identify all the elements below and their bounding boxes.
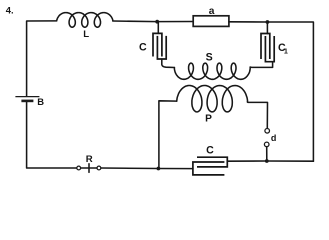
wire: L to node 1 (113, 20, 157, 23)
capacitor C (left, interleaved plates) top lead (157, 22, 159, 34)
wire: key R to bottom-left corner and up to battery (27, 102, 77, 168)
svg-text:1: 1 (284, 47, 288, 56)
inductor L (57, 13, 113, 28)
capacitor C (left) top plate (153, 33, 162, 56)
node: junction of bottom wire and coil P lead (157, 167, 161, 171)
spark gap lower terminal (264, 142, 269, 147)
wire: coil S right end to capacitor C1 bottom lead (250, 62, 272, 67)
wire: node 1 to resistor a (157, 21, 193, 23)
node: junction of top wire and capacitor C lead (155, 20, 159, 24)
node: junction of top wire and capacitor C1 lead (266, 20, 270, 24)
capacitor C (bottom) left plate (193, 162, 225, 175)
svg-text:L: L (83, 29, 89, 40)
svg-text:B: B (37, 96, 44, 107)
svg-text:R: R (86, 154, 93, 165)
wire: node 3 to key R right contact (101, 167, 158, 170)
svg-text:S: S (206, 52, 213, 64)
svg-text:C: C (139, 41, 147, 53)
battery B long thin plate (15, 96, 39, 98)
resistor a (box) (193, 16, 229, 27)
capacitor C1 (right, interleaved plates) top lead (266, 22, 268, 34)
wire: resistor a to node 2 (229, 21, 268, 23)
coil S (174, 63, 250, 79)
capacitor C1 bottom plate (265, 36, 274, 62)
wire: coil P right end to spark gap (248, 102, 268, 128)
key R bar tick (88, 164, 90, 173)
spark gap upper terminal (265, 129, 270, 134)
node: junction of bottom-right wire and spark-gap lead (265, 159, 269, 163)
wire: node 4 to capacitor C (bottom) right plate (227, 160, 266, 162)
key R right contact (97, 166, 101, 170)
svg-text:a: a (209, 6, 215, 17)
wire: bottom-right from corner to node 4 (267, 160, 314, 162)
wire: node 2 to top-right corner and right vertical (267, 22, 313, 161)
svg-text:C: C (206, 144, 214, 156)
wire: top-left corner and top wire to L (27, 21, 57, 96)
svg-text:d: d (271, 133, 277, 143)
svg-text:P: P (205, 114, 212, 125)
wire: spark gap lower terminal to node 4 (266, 147, 268, 161)
wire: capacitor C (left) bottom lead to coil S (162, 59, 175, 68)
wire: coil P left lead from node 3 (159, 101, 177, 169)
battery B short thick plate (21, 100, 33, 103)
coil P (177, 86, 248, 112)
capacitor C (bottom, interleaved plates) right plate (197, 157, 227, 167)
svg-text:4.: 4. (6, 5, 14, 16)
wire: capacitor C (bottom) left plate to node 3 (158, 168, 193, 170)
key R left contact (77, 166, 81, 170)
capacitor C1 top plate (261, 34, 270, 60)
capacitor C (left) bottom plate (157, 36, 166, 59)
